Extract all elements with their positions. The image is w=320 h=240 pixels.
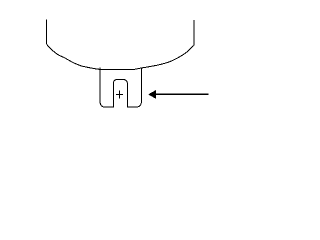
plus sign — [116, 91, 123, 99]
arrow shaft — [156, 93, 209, 95]
bell-shaped device bottom outline (left vertical, bottom curve, right vertical) — [46, 20, 194, 70]
arrow head — [148, 90, 156, 99]
base bracket with central U-slot — [100, 68, 141, 107]
